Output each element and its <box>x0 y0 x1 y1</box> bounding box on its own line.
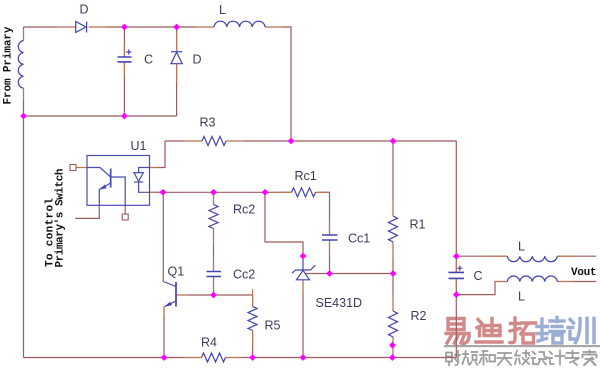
capacitor C (input) <box>118 49 132 62</box>
wire: SE431D ref line to R1/R2 junction <box>306 273 393 275</box>
resistor R1 <box>389 216 398 242</box>
wire: Q1 collector from opto node <box>162 192 164 281</box>
wire: Rc2 top lead <box>213 192 215 204</box>
node: output cap bottom <box>453 291 460 298</box>
svg-text:Rc1: Rc1 <box>295 169 317 183</box>
resistor R4 <box>202 353 226 362</box>
node: R1/R2 divider <box>390 270 397 277</box>
wire: top rail from transformer to diode D <box>24 26 76 28</box>
svg-text:C: C <box>144 53 153 67</box>
svg-text:R1: R1 <box>410 218 426 232</box>
wire: port1 to U1 collector pin <box>76 167 87 169</box>
wire: Rc2 to Cc2 <box>213 229 215 272</box>
wire: transformer bottom lead to input bottom rail <box>23 88 25 116</box>
node: SE431D anode ground <box>300 354 307 361</box>
node: diode D2 top <box>173 24 180 31</box>
resistor Rc2 <box>209 205 218 229</box>
wire: R1 bottom lead to divider node <box>392 242 394 274</box>
svg-text:R5: R5 <box>265 319 281 333</box>
wire: opto rail to Rc1 <box>163 191 292 193</box>
node: output cap top <box>453 253 460 260</box>
capacitor Cc2 <box>207 272 222 277</box>
capacitor Cc1 <box>322 235 338 240</box>
wire: R1 top lead from output rail <box>392 141 394 216</box>
wire: drop from R3 rail to U1 LED anode <box>150 141 166 168</box>
svg-text:L: L <box>518 290 525 304</box>
wire: U1 base exit lead to port <box>124 205 126 214</box>
svg-text:D: D <box>80 3 89 17</box>
svg-text:From Primary: From Primary <box>3 26 15 104</box>
node: opto cathode / Q1 collector <box>160 189 167 196</box>
svg-text:Rc2: Rc2 <box>233 203 255 217</box>
wire: Rc1 to corner into Cc1 <box>316 192 330 235</box>
svg-text:C: C <box>474 269 483 283</box>
op-amp U1 optocoupler <box>87 156 150 206</box>
watermark underline <box>444 345 600 347</box>
node: 431 branch <box>262 189 269 196</box>
svg-text:SE431D: SE431D <box>316 296 363 310</box>
svg-text:Cc1: Cc1 <box>348 232 370 246</box>
output inductor L (top) <box>507 256 557 262</box>
node: L to R3 rail <box>288 138 295 145</box>
wire: R2 bottom lead to ground rail <box>392 337 394 358</box>
resistor R5 <box>248 307 257 331</box>
wire: R5 bottom lead to ground rail <box>252 331 254 358</box>
wire: R2 top lead <box>392 274 394 312</box>
node: transformer bottom <box>20 113 27 120</box>
svg-text:R2: R2 <box>411 309 427 323</box>
wire: U1 emitter exit lead <box>75 205 99 218</box>
wire: Cc2 bottom lead to Q1 base node <box>213 277 215 296</box>
transformer secondary winding <box>18 41 23 89</box>
wire: input bottom rail <box>24 115 177 117</box>
node: Q1 base / Cc2 <box>210 292 217 299</box>
wire: diode D to node C-top <box>89 26 214 28</box>
node: rectifier output top <box>121 24 128 31</box>
wire: ground rail left of R4 <box>24 357 202 359</box>
LED inside U1 <box>139 168 150 173</box>
wire: R3 rail right segment with nodes <box>226 140 456 142</box>
svg-text:Primary's Switch: Primary's Switch <box>55 169 67 268</box>
resistor Rc1 <box>292 188 316 197</box>
resistor R2 <box>389 311 398 337</box>
shunt regulator SE431D <box>292 256 315 280</box>
wire: right vertical from R3 rail down to output cap <box>455 141 457 272</box>
svg-text:L: L <box>219 3 226 17</box>
wire: cap C bottom lead <box>123 62 125 116</box>
wire: bottom L coil to right edge <box>557 281 596 283</box>
output capacitor C <box>449 266 465 279</box>
svg-text:Cc2: Cc2 <box>233 268 255 282</box>
wire: diode D2 top lead <box>176 27 178 52</box>
node: cap C bottom <box>121 113 128 120</box>
node: Cc1 to ref line <box>326 270 333 277</box>
wire: cap C top lead <box>123 27 125 57</box>
phototransistor inside U1 <box>87 168 111 178</box>
transistor Q1 <box>163 282 176 307</box>
inductor L (top) <box>214 21 265 27</box>
svg-text:Vout: Vout <box>571 267 597 279</box>
node: R5 ground <box>249 354 256 361</box>
wire: after L coil to top-right corner, down to R3 rail <box>265 27 291 141</box>
wire: Q1 base line to Cc2 node and R5 corner <box>177 295 253 307</box>
svg-text:U1: U1 <box>131 139 147 153</box>
wire: SE431D anode down to ground rail <box>302 280 304 358</box>
svg-text:R3: R3 <box>200 116 216 130</box>
node: Q1 emitter ground <box>161 354 168 361</box>
resistor R3 <box>202 137 226 146</box>
wire: R3 rail left segment <box>165 140 202 142</box>
wire: output return step to bottom L coil <box>456 282 507 295</box>
node: R2 bottom stub <box>389 342 396 349</box>
watermark logo 易迪拓培训 <box>446 318 594 344</box>
wire: Q1 emitter down to ground rail <box>163 307 165 358</box>
wire: output node to top L coil <box>456 255 507 257</box>
watermark text 射频和天线设计专家 <box>446 351 597 366</box>
port square (U1 base) <box>122 214 128 220</box>
node: R1 top <box>390 138 397 145</box>
node: Rc2 top <box>210 189 217 196</box>
output inductor L (bottom) <box>507 276 557 282</box>
svg-text:Q1: Q1 <box>168 265 185 279</box>
diode D (top, horizontal) <box>76 22 87 33</box>
wire: top L coil to right edge <box>557 255 596 257</box>
wire: transformer top lead <box>23 27 25 41</box>
wire: output cap bottom to ground rail corner <box>226 278 457 357</box>
node: SE431D cathode <box>300 253 307 260</box>
wire: left vertical down to ground rail <box>23 116 25 358</box>
svg-text:R4: R4 <box>201 336 217 350</box>
svg-text:D: D <box>193 53 202 67</box>
wire: branch from opto rail down to SE431D cathode <box>265 192 303 256</box>
node: R2 ground <box>389 354 396 361</box>
svg-text:L: L <box>518 240 525 254</box>
port square (U1 collector) <box>70 165 76 171</box>
wire: Cc1 bottom lead to ref line <box>329 240 331 274</box>
diode D (vertical, freewheel) <box>171 52 182 64</box>
wire: U1 LED cathode to node <box>150 191 164 193</box>
wire: diode D2 bottom lead <box>176 64 178 116</box>
